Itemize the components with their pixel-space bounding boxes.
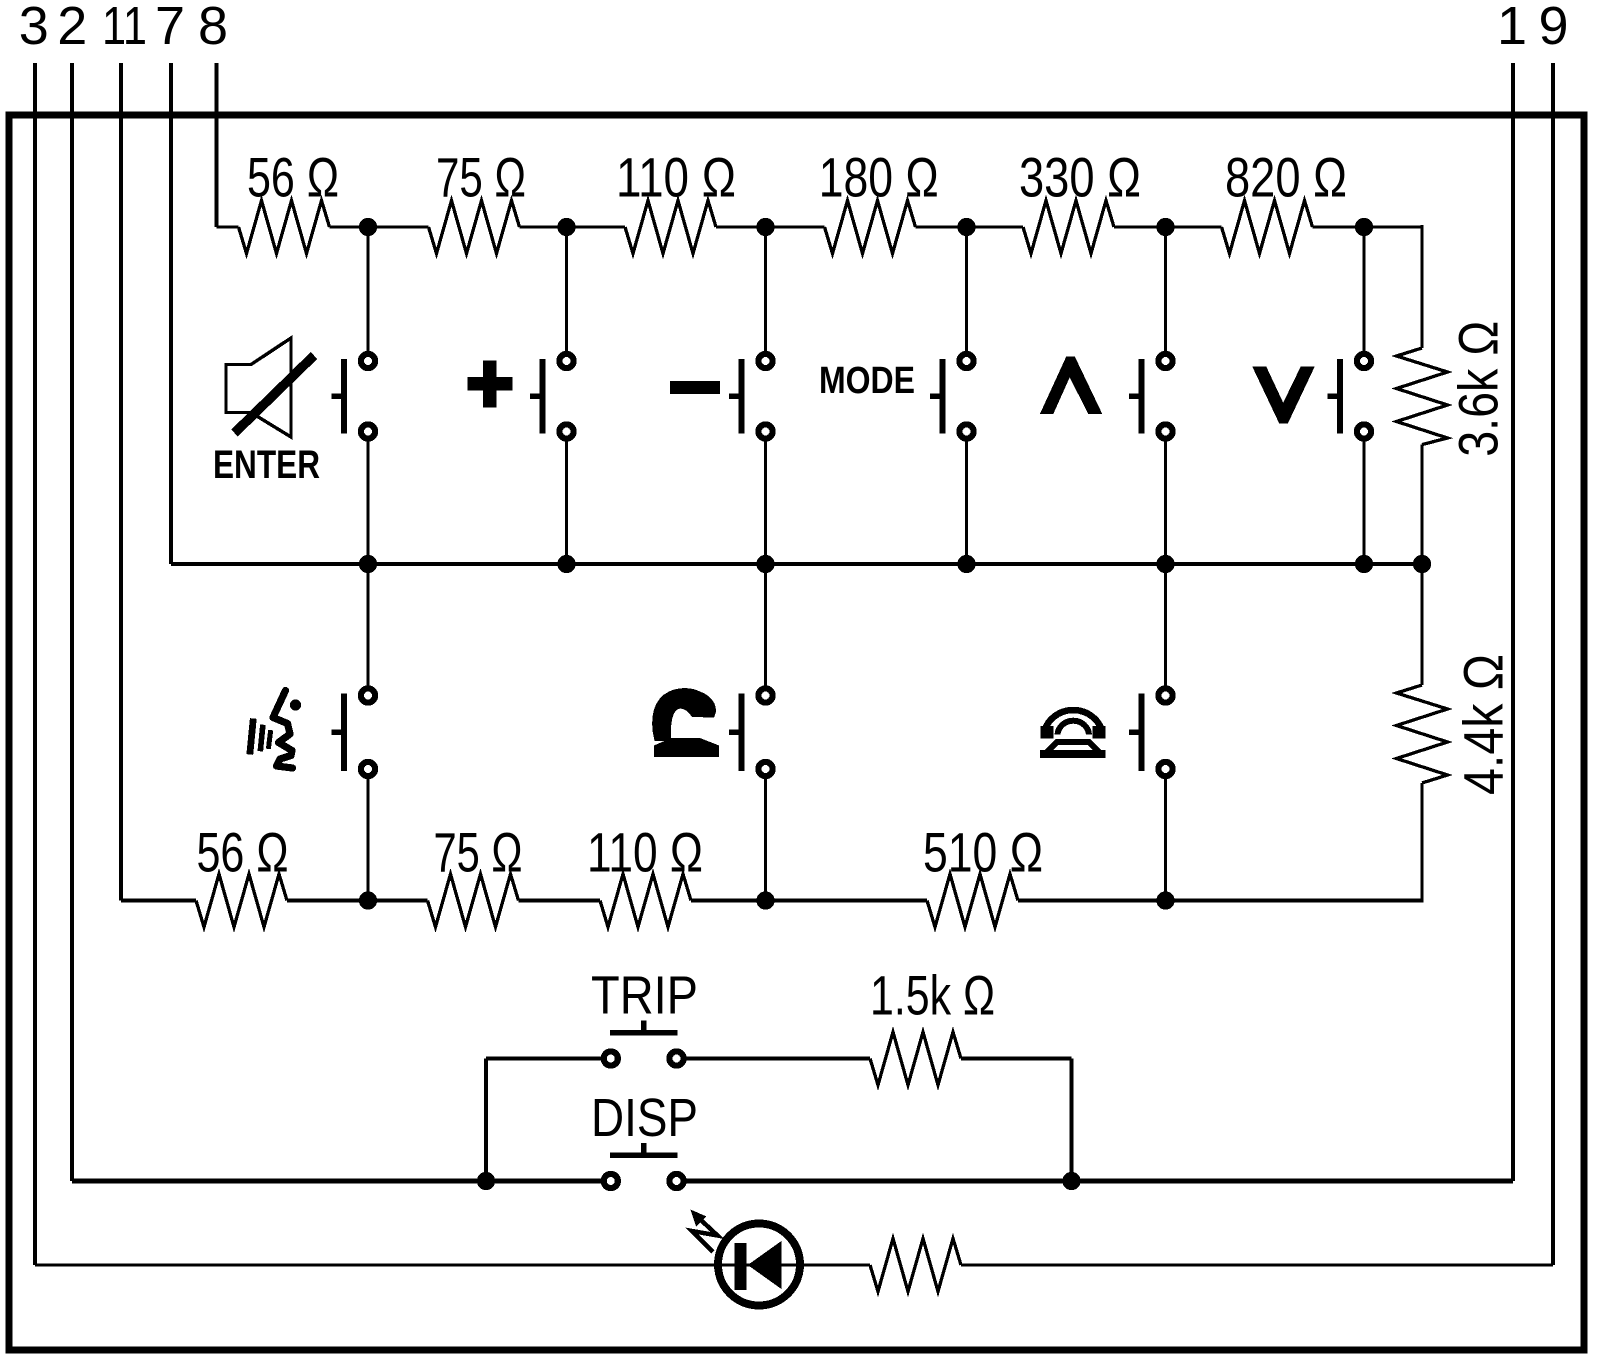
wire - right branch down to DISP row <box>1070 1059 1074 1182</box>
pushbutton pickup - bottom terminal circle <box>758 762 772 776</box>
pushbutton ENTER/mute - actuator <box>332 359 345 434</box>
icon - voice/speech (voice button) <box>250 691 301 769</box>
LED indicator - wire through body <box>714 1263 804 1266</box>
wire - bottom chain segment 2 <box>287 898 428 902</box>
wire - DISP right terminal to pin 1 <box>686 1179 1513 1184</box>
wire - 3.6k resistor to bus <box>1420 445 1423 564</box>
svg-text:56 Ω: 56 Ω <box>197 821 289 884</box>
junction node - top chain column 5 <box>1156 218 1174 236</box>
svg-text:8: 8 <box>198 0 228 56</box>
svg-text:330 Ω: 330 Ω <box>1019 146 1141 209</box>
icon - plus sign (+ button) <box>468 361 513 408</box>
LED indicator - light arrow <box>691 1210 718 1253</box>
junction node - top chain column 2 <box>557 218 575 236</box>
pushbutton down - actuator <box>1328 359 1341 434</box>
wire - up button bottom to bus <box>1164 442 1167 565</box>
svg-text:110 Ω: 110 Ω <box>616 146 736 209</box>
resistor 56Ω (top row) zigzag <box>239 201 330 254</box>
wire - node to MODE button top <box>965 227 968 351</box>
wire - DISP row from pin 2 to DISP left terminal <box>72 1179 601 1184</box>
junction node - DISP row left branch <box>477 1172 495 1190</box>
wire - bus to pickup button top <box>764 564 767 686</box>
junction node - DISP row right branch <box>1062 1172 1080 1190</box>
junction node - bus column 5 <box>1156 555 1174 573</box>
pin 9 lead wire <box>1551 63 1555 1265</box>
junction node - bottom chain column 1 <box>359 891 377 909</box>
resistor 4.4kΩ zigzag (vertical) <box>1397 685 1448 783</box>
svg-text:4.4k Ω: 4.4k Ω <box>1452 654 1515 795</box>
wire - ENTER/mute button bottom to bus <box>366 442 369 565</box>
wire - top chain segment 3 <box>520 225 626 228</box>
wire - LED resistor to pin 9 <box>961 1263 1553 1266</box>
wire - top chain segment 5 <box>916 225 1024 228</box>
resistor 110Ω (bottom row) zigzag <box>600 874 691 927</box>
pushbutton ENTER/mute - top terminal circle <box>361 354 375 368</box>
icon - down chevron (∨ button) <box>1252 367 1314 424</box>
pushbutton minus - top terminal circle <box>758 354 772 368</box>
svg-text:2: 2 <box>57 0 87 56</box>
wire - plus button bottom to bus <box>565 442 568 565</box>
resistor 3.6kΩ zigzag (vertical) <box>1397 348 1448 445</box>
wire - node to plus button top <box>565 227 568 351</box>
junction node - bottom chain column 3 <box>756 891 774 909</box>
wire - left branch down to DISP row <box>484 1059 488 1182</box>
pushbutton plus - top terminal circle <box>559 354 573 368</box>
wire - node to minus button top <box>764 227 767 351</box>
icon - phone on-hook (hangup button) <box>1040 710 1106 758</box>
junction node - bus column 6 <box>1355 555 1373 573</box>
junction node - bus column 2 <box>557 555 575 573</box>
resistor 1.5kΩ zigzag <box>870 1032 961 1085</box>
svg-text:110 Ω: 110 Ω <box>587 821 703 884</box>
pushbutton TRIP - right terminal circle <box>669 1051 683 1065</box>
LED indicator - cathode bar <box>734 1243 746 1290</box>
svg-text:820 Ω: 820 Ω <box>1225 146 1347 209</box>
resistor 75Ω (top row) zigzag <box>429 201 520 254</box>
icon - phone off-hook (pickup button) <box>652 688 719 757</box>
pin 11 lead wire <box>119 63 123 901</box>
wire - common bus below first button row <box>171 562 1422 566</box>
svg-text:3: 3 <box>19 0 49 56</box>
junction node - bus right end at 3.6k/4.4k <box>1413 555 1431 573</box>
junction node - top chain column 6 <box>1355 218 1373 236</box>
wire - bottom chain segment 4 <box>691 898 927 902</box>
resistor 75Ω (bottom row) zigzag <box>428 874 519 927</box>
wire - TRIP left terminal to left branch <box>486 1057 601 1061</box>
pin 2 lead wire <box>70 63 74 1181</box>
icon - up chevron (∧ button) <box>1040 357 1102 414</box>
resistor 820Ω (top row) zigzag <box>1222 201 1313 254</box>
svg-text:180 Ω: 180 Ω <box>819 146 939 209</box>
pushbutton minus - actuator <box>729 359 742 434</box>
wire - node to up button top <box>1164 227 1167 351</box>
svg-text:1.5k Ω: 1.5k Ω <box>870 964 995 1027</box>
pushbutton hangup - bottom terminal circle <box>1158 762 1172 776</box>
wire - 1.5k resistor to right branch <box>961 1057 1072 1061</box>
pushbutton up - bottom terminal circle <box>1158 424 1172 438</box>
pushbutton DISP - left terminal circle <box>604 1174 618 1188</box>
resistor (LED series, unlabeled) zigzag <box>870 1239 961 1292</box>
wire - pin 3 to LED anode <box>35 1263 714 1266</box>
wire - top chain corner down to 3.6k resistor <box>1420 225 1423 348</box>
wire - top chain segment 1 <box>217 225 239 228</box>
wire - bottom chain segment 5 <box>1018 898 1422 902</box>
svg-text:56 Ω: 56 Ω <box>247 146 339 209</box>
pushbutton up - top terminal circle <box>1158 354 1172 368</box>
junction node - top chain column 1 <box>359 218 377 236</box>
pin 1 lead wire <box>1511 63 1515 1181</box>
junction node - bus column 3 <box>756 555 774 573</box>
pushbutton hangup - top terminal circle <box>1158 688 1172 702</box>
svg-text:75 Ω: 75 Ω <box>434 821 523 884</box>
pushbutton MODE - actuator <box>930 359 943 434</box>
pushbutton voice - top terminal circle <box>361 688 375 702</box>
svg-text:510 Ω: 510 Ω <box>923 821 1043 884</box>
resistor 110Ω (top row) zigzag <box>625 201 716 254</box>
pushbutton plus - actuator <box>530 359 543 434</box>
pushbutton hangup - actuator <box>1129 694 1142 772</box>
resistor 180Ω (top row) zigzag <box>825 201 916 254</box>
icon - minus sign (− button) <box>670 381 720 394</box>
icon - speaker mute (ENTER button) <box>226 338 314 437</box>
wire - down button bottom to bus <box>1362 442 1365 565</box>
wire - LED cathode to series resistor <box>804 1263 870 1266</box>
pushbutton DISP - right terminal circle <box>669 1174 683 1188</box>
LED indicator - body circle <box>718 1224 800 1306</box>
pushbutton ENTER/mute - bottom terminal circle <box>361 424 375 438</box>
wire - minus button bottom to bus <box>764 442 767 565</box>
svg-text:9: 9 <box>1538 0 1568 56</box>
junction node - top chain column 4 <box>957 218 975 236</box>
LED indicator - anode triangle <box>748 1241 782 1289</box>
wire - bottom chain segment 3 <box>519 898 601 902</box>
junction node - top chain column 3 <box>756 218 774 236</box>
svg-text:3.6k Ω: 3.6k Ω <box>1447 321 1510 457</box>
wire - pickup button bottom to bottom chain <box>764 779 767 901</box>
pushbutton minus - bottom terminal circle <box>758 424 772 438</box>
resistor 510Ω (bottom row) zigzag <box>927 874 1018 927</box>
wire - top chain segment 6 <box>1114 225 1222 228</box>
wire - bus to voice button top <box>366 564 369 686</box>
wire - bus to 4.4k resistor <box>1420 564 1423 685</box>
pin 8 lead wire <box>215 63 219 227</box>
pin 3 lead wire <box>33 63 37 1265</box>
wire - top chain segment 7 <box>1313 225 1423 228</box>
pushbutton plus - bottom terminal circle <box>559 424 573 438</box>
wire - 4.4k resistor to bottom chain <box>1420 783 1423 903</box>
wire - top chain segment 4 <box>716 225 825 228</box>
pin 7 lead wire <box>169 63 173 564</box>
pushbutton down - bottom terminal circle <box>1357 424 1371 438</box>
pushbutton DISP - actuator <box>610 1143 678 1155</box>
pushbutton MODE - bottom terminal circle <box>959 424 973 438</box>
pushbutton up - actuator <box>1129 359 1142 434</box>
pushbutton TRIP - left terminal circle <box>604 1051 618 1065</box>
pushbutton pickup - actuator <box>729 694 742 772</box>
svg-text:DISP: DISP <box>591 1088 698 1148</box>
junction node - bottom chain column 5 <box>1156 891 1174 909</box>
svg-text:11: 11 <box>102 0 147 56</box>
svg-text:1: 1 <box>1497 0 1527 56</box>
pushbutton TRIP - actuator <box>610 1021 678 1033</box>
pushbutton MODE - top terminal circle <box>959 354 973 368</box>
wire - MODE button bottom to bus <box>965 442 968 565</box>
svg-text:ENTER: ENTER <box>213 443 320 487</box>
resistor 330Ω (top row) zigzag <box>1023 201 1114 254</box>
resistor 56Ω (bottom row) zigzag <box>196 874 287 927</box>
wire - top chain segment 2 <box>330 225 429 228</box>
junction node - bus column 1 <box>359 555 377 573</box>
wire - node to down button top <box>1362 227 1365 351</box>
svg-text:TRIP: TRIP <box>591 966 698 1026</box>
wire - bus to hangup button top <box>1164 564 1167 686</box>
svg-text:75 Ω: 75 Ω <box>436 146 526 209</box>
pushbutton pickup - top terminal circle <box>758 688 772 702</box>
wire - TRIP right terminal to 1.5k resistor <box>686 1057 870 1061</box>
wire - voice button bottom to bottom chain <box>366 779 369 901</box>
wire - hangup button bottom to bottom chain <box>1164 779 1167 901</box>
junction node - bus column 4 <box>957 555 975 573</box>
pushbutton voice - actuator <box>332 694 345 772</box>
pushbutton down - top terminal circle <box>1357 354 1371 368</box>
wire - node to ENTER/mute button top <box>366 227 369 351</box>
svg-text:MODE: MODE <box>819 360 915 402</box>
pushbutton voice - bottom terminal circle <box>361 762 375 776</box>
wire - bottom chain segment 1 <box>121 898 196 902</box>
svg-text:7: 7 <box>155 0 185 56</box>
